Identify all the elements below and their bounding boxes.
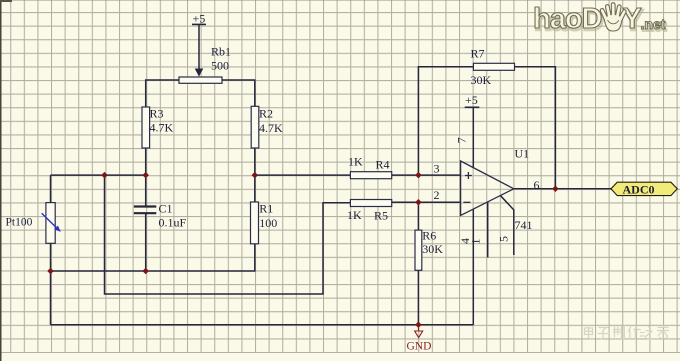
svg-text:C1: C1 (159, 202, 173, 216)
svg-text:500: 500 (211, 59, 229, 73)
svg-text:.net: .net (641, 16, 666, 32)
watermark (585, 326, 669, 340)
svg-text:R5: R5 (374, 209, 388, 223)
svg-text:5: 5 (497, 236, 511, 242)
wire +5 to op-amp pin 7 (472, 107, 474, 167)
wire R3 bottom lead (145, 148, 147, 175)
wire Rb1 left end to R3 top (146, 80, 179, 107)
svg-text:741: 741 (515, 218, 533, 232)
wire R7 right down to output node (515, 67, 556, 189)
wire R5 right to op-amp pin 2 (392, 201, 461, 203)
wire feedback left: pin3 node up to R7 (418, 67, 473, 175)
potentiometer Rb1 500 (179, 45, 231, 84)
svg-text:+5: +5 (193, 12, 206, 26)
svg-text:1: 1 (469, 239, 483, 245)
svg-text:4.7K: 4.7K (259, 121, 283, 135)
svg-text:R3: R3 (150, 107, 164, 121)
svg-text:Pt100: Pt100 (6, 217, 33, 229)
junction pin3/R4/R7 (415, 172, 422, 179)
svg-text:R4: R4 (376, 158, 390, 172)
svg-text:7: 7 (455, 137, 469, 143)
junction ground rail / R6 / GND (415, 322, 422, 329)
svg-text:ADC0: ADC0 (623, 182, 655, 196)
svg-text:3: 3 (434, 162, 440, 176)
svg-text:2: 2 (434, 188, 440, 202)
wire node A horizontal (51, 174, 146, 176)
svg-text:1K: 1K (347, 208, 362, 222)
wire op-amp pin 4 to ground rail (472, 209, 474, 325)
wire node B to R4 left (255, 174, 351, 176)
resistor R2 4.7K (251, 106, 283, 148)
junction pin2/R5/R6 (415, 199, 422, 206)
wire output to ADC0 (514, 188, 611, 190)
thermistor Pt100 (6, 203, 61, 244)
svg-text:R6: R6 (422, 229, 436, 243)
svg-text:haoD: haoD (533, 3, 602, 35)
wire R1 top lead (254, 175, 256, 202)
wire R4 right to op-amp pin 3 (392, 174, 461, 176)
resistor R6 30K (415, 229, 443, 271)
power +5 top (192, 12, 206, 77)
wire node A down to Pt100 top (50, 175, 52, 203)
svg-text:30K: 30K (471, 73, 492, 87)
wire R6 bottom lead (417, 270, 419, 325)
svg-text:U1: U1 (515, 147, 530, 161)
wire op-amp pin 1 stub (487, 202, 489, 258)
svg-text:1K: 1K (348, 155, 363, 169)
capacitor C1 0.1uF (134, 202, 187, 230)
wire R6 top lead (417, 202, 419, 230)
wire node A to R5 left (routing) (105, 175, 351, 294)
svg-text:Y: Y (623, 3, 642, 35)
ground GND (407, 326, 432, 353)
svg-text:Rb1: Rb1 (211, 45, 231, 59)
wire R2 bottom lead (254, 148, 256, 175)
junction output/R7 (552, 186, 559, 193)
wire op-amp pin 5 stub (501, 196, 514, 255)
wire Pt100 bottom to ground rail (50, 243, 52, 324)
svg-text:+5: +5 (465, 93, 478, 107)
svg-text:R2: R2 (259, 107, 273, 121)
junction C1 bottom (142, 268, 149, 275)
svg-text:4.7K: 4.7K (150, 121, 174, 135)
resistor R3 4.7K (142, 107, 174, 149)
junction node B (252, 172, 259, 179)
svg-text:0.1uF: 0.1uF (159, 215, 187, 229)
wire C1 bottom lead (145, 214, 147, 272)
wire +5 to Rb1 wiper (198, 24, 200, 69)
resistor R4 1K (348, 155, 392, 179)
logo haoDIY.net (533, 3, 667, 37)
wire Rb1 right end to R2 top (222, 80, 255, 106)
svg-text:6: 6 (534, 178, 540, 192)
svg-text:30K: 30K (422, 242, 443, 256)
junction node A left (101, 172, 108, 179)
svg-text:100: 100 (259, 216, 277, 230)
op-amp U1 741 (461, 147, 533, 232)
resistor R1 100 (251, 202, 278, 244)
svg-text:R1: R1 (259, 202, 273, 216)
wire ground rail (51, 324, 474, 326)
wire ground-side link Pt100/C1/R1 (51, 244, 255, 271)
resistor R7 30K (471, 46, 515, 87)
svg-text:R7: R7 (471, 46, 485, 60)
power +5 op-amp (465, 93, 480, 108)
wire C1 top lead (145, 175, 147, 206)
svg-text:GND: GND (407, 341, 432, 353)
resistor R5 1K (347, 200, 392, 223)
junction Pt100 bottom (47, 268, 54, 275)
port ADC0 (611, 182, 677, 196)
junction node A / C1 top (142, 172, 149, 179)
